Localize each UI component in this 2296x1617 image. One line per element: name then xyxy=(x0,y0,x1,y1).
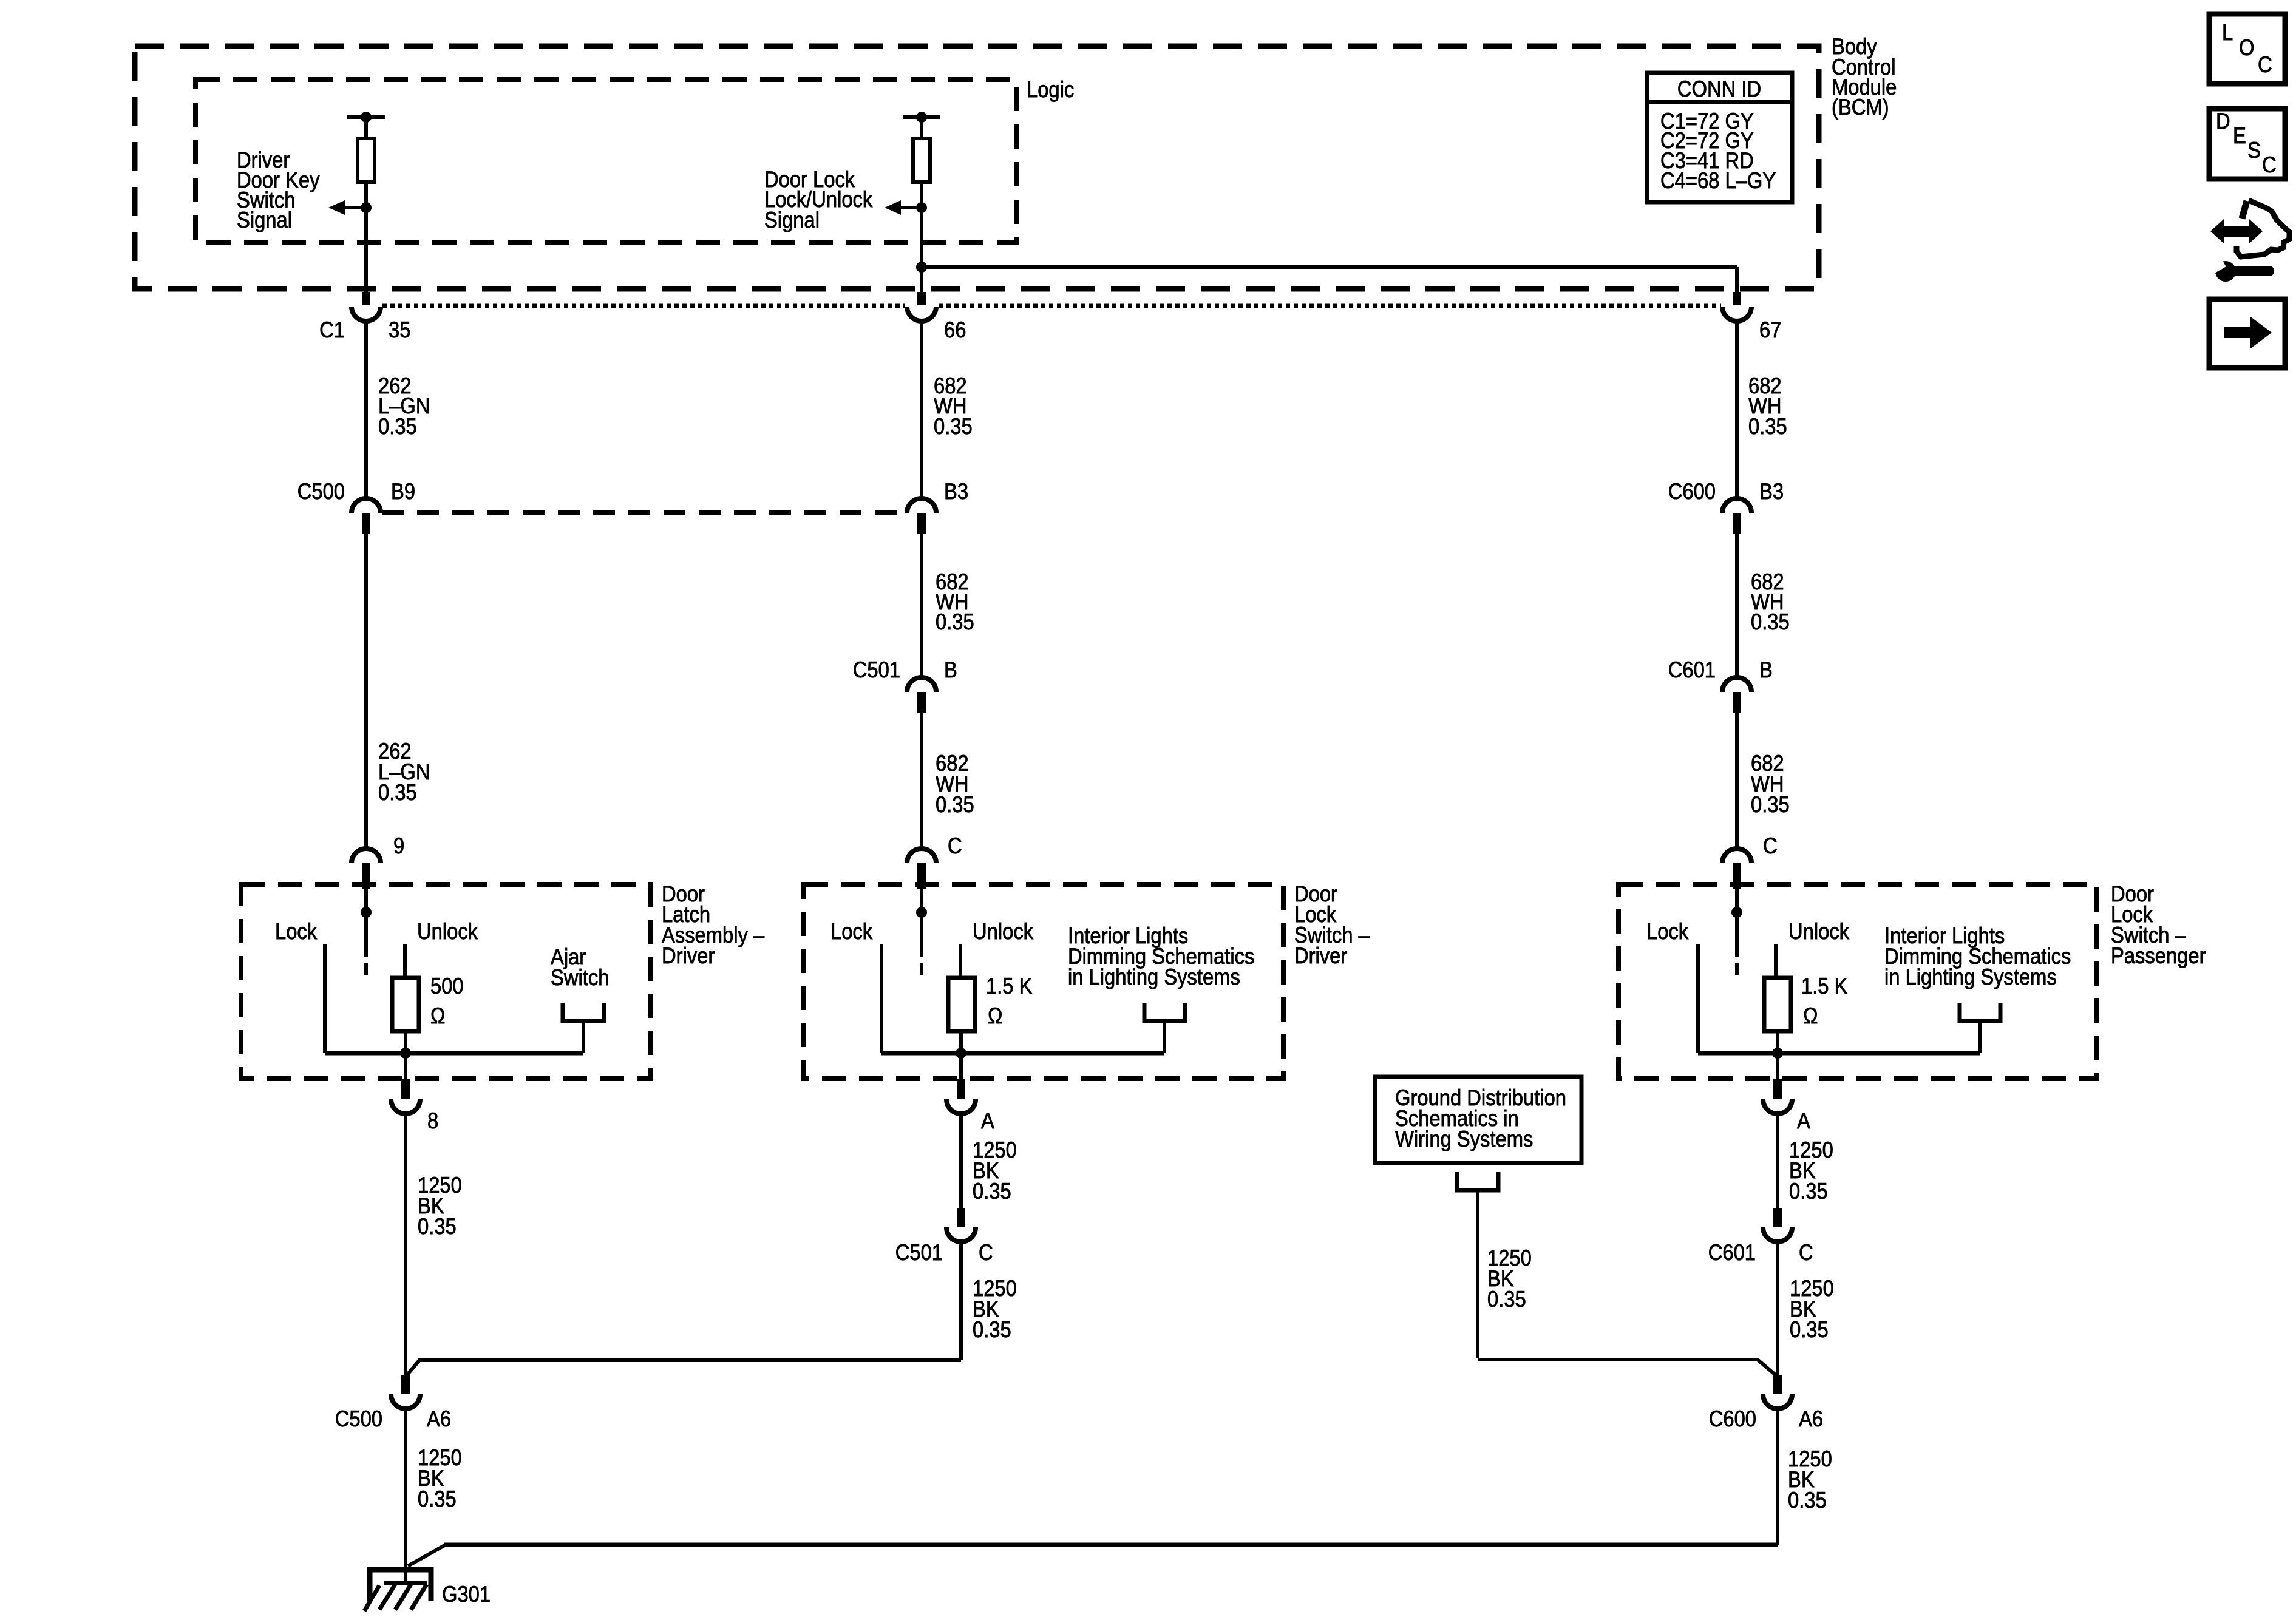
svg-text:0.35: 0.35 xyxy=(973,1317,1011,1342)
wire 1250 BK from C600-A6 down to ground run xyxy=(1776,1409,1779,1545)
svg-text:Driver: Driver xyxy=(662,943,715,968)
svg-text:(BCM): (BCM) xyxy=(1832,95,1889,120)
svg-text:0.35: 0.35 xyxy=(1790,1317,1829,1342)
diagnostic hand-wrench icon: wrench handle xyxy=(2232,266,2274,276)
switch movable arm (passenger) xyxy=(1735,912,1739,957)
svg-text:500: 500 xyxy=(430,974,464,998)
wire bus to pin A (driver) xyxy=(959,1053,963,1079)
svg-text:C: C xyxy=(979,1240,993,1265)
Unlock contact wire (driver) xyxy=(959,944,962,978)
door lock switch passenger pin C connector xyxy=(1722,849,1751,863)
wire diagonal jog into right column xyxy=(1758,1360,1778,1377)
svg-text:Ω: Ω xyxy=(1803,1003,1818,1028)
latch switch movable arm xyxy=(364,912,368,957)
LOC icon box xyxy=(2209,14,2285,84)
svg-text:0.35: 0.35 xyxy=(936,792,974,817)
BCM connector face dotted line xyxy=(382,304,905,308)
Ground Distribution Schematics reference box xyxy=(1375,1077,1581,1163)
connector C501 pin C (in-line) xyxy=(957,1208,965,1227)
diagnostic hand-wrench icon: outline shape xyxy=(2237,200,2289,257)
junction arrow/wire xyxy=(361,202,372,213)
wire bar to resistor xyxy=(920,117,923,138)
svg-text:E: E xyxy=(2233,123,2246,148)
resistor 500 ohm in door latch xyxy=(392,978,419,1031)
BCM pin 35 connector C1 (male pin + female cup) xyxy=(362,292,370,305)
svg-text:Signal: Signal xyxy=(764,208,820,232)
ground G301 hatch bar xyxy=(384,1581,427,1585)
wire diagonal jog into left column xyxy=(406,1360,419,1377)
junction switch common (passenger) xyxy=(1731,907,1742,918)
connector C501 pin B (in-line) xyxy=(907,677,936,692)
svg-text:8: 8 xyxy=(427,1108,438,1133)
wire pin C into switch common (passenger) xyxy=(1735,889,1739,912)
svg-text:0.35: 0.35 xyxy=(1748,414,1787,439)
ajar switch stem wire xyxy=(582,1021,585,1053)
connector C601 pin C (in-line) xyxy=(1773,1208,1782,1227)
wire 682 WH from 67 to C600-B3 xyxy=(1735,321,1739,498)
wire 1250 BK from driver pin A to C501-C xyxy=(959,1114,963,1208)
svg-text:0.35: 0.35 xyxy=(1788,1488,1827,1513)
latch switch arm tick xyxy=(364,963,368,975)
svg-text:A: A xyxy=(1797,1108,1810,1133)
svg-text:C1: C1 xyxy=(319,317,345,342)
Unlock contact wire (passenger) xyxy=(1774,944,1778,978)
latch contact bus wire xyxy=(325,1051,583,1056)
svg-text:S: S xyxy=(2247,138,2261,163)
wire 1250 BK from C501-C down xyxy=(959,1242,963,1360)
resistor (BCM internal, lock/unlock sense) xyxy=(913,138,930,182)
interior lights dimming contact bracket (driver) xyxy=(1144,1003,1185,1021)
svg-text:C: C xyxy=(2258,52,2272,77)
svg-text:C4=68 L–GY: C4=68 L–GY xyxy=(1660,168,1776,193)
svg-text:Signal: Signal xyxy=(237,208,292,232)
svg-text:0.35: 0.35 xyxy=(378,414,417,439)
svg-text:0.35: 0.35 xyxy=(418,1214,457,1239)
svg-text:C600: C600 xyxy=(1709,1406,1756,1431)
wire 682 WH from C601-B to door lock switch passenger pin C xyxy=(1735,713,1739,849)
wire resistor down through logic box to BCM pin 66 xyxy=(920,182,923,292)
wire middle branch to left column xyxy=(418,1358,961,1362)
svg-text:B: B xyxy=(1759,657,1773,682)
svg-text:0.35: 0.35 xyxy=(934,414,973,439)
wire ground distribution to right column xyxy=(1478,1358,1759,1361)
ground hatch stroke 1 xyxy=(364,1585,379,1611)
svg-text:C501: C501 xyxy=(895,1240,943,1265)
door lock switch passenger pin A connector xyxy=(1773,1079,1782,1099)
ajar switch contact bracket xyxy=(563,1003,604,1021)
svg-text:C601: C601 xyxy=(1708,1240,1756,1265)
svg-text:Logic: Logic xyxy=(1027,77,1074,102)
Unlock contact wire xyxy=(403,944,407,978)
wire 1250 BK from C601-C down xyxy=(1776,1242,1779,1375)
diagnostic hand-wrench icon: wrench head xyxy=(2215,261,2236,282)
svg-text:in Lighting Systems: in Lighting Systems xyxy=(1884,964,2057,989)
switch arm tick (passenger) xyxy=(1735,963,1739,975)
BCM pin 67 (male pin + female cup) xyxy=(1733,292,1741,305)
next-page arrow icon box xyxy=(2209,299,2285,368)
connector C600 pin B3 (in-line) xyxy=(1722,498,1751,513)
wire 262 L-GN from C1-35 to C500-B9 xyxy=(364,321,368,498)
wire bottom ground run right to left xyxy=(444,1543,1778,1547)
wire ground distribution stem xyxy=(1476,1190,1479,1358)
connector C601 pin B (in-line) xyxy=(1722,677,1751,692)
dashed harness line C500-B9 to C501-B3 xyxy=(382,510,906,515)
Door Lock Switch Driver dashed box xyxy=(804,884,1283,1079)
wire resistor down through logic box to BCM pin 35 xyxy=(364,182,368,292)
junction on top bar xyxy=(361,112,372,123)
diagnostic hand-wrench icon: thumb stroke xyxy=(2242,201,2247,219)
svg-text:1.5 K: 1.5 K xyxy=(986,974,1032,998)
dimming stem wire (driver) xyxy=(1163,1021,1166,1053)
svg-text:C601: C601 xyxy=(1668,657,1716,682)
junction bus to pin A (driver) xyxy=(956,1048,966,1059)
wire pin C into switch common (driver) xyxy=(920,889,923,912)
svg-text:0.35: 0.35 xyxy=(418,1486,457,1511)
next-page arrow icon xyxy=(2224,327,2251,338)
dimming stem wire (passenger) xyxy=(1978,1021,1982,1053)
wire resistor to bus (passenger) xyxy=(1776,1031,1779,1053)
svg-text:Ω: Ω xyxy=(988,1003,1002,1028)
CONN ID header separator xyxy=(1647,100,1792,104)
svg-text:C: C xyxy=(2262,152,2277,177)
DESC icon box xyxy=(2209,109,2285,179)
wire bar to resistor xyxy=(364,117,368,138)
junction bus to pin 8 xyxy=(400,1048,411,1059)
svg-text:Unlock: Unlock xyxy=(973,919,1034,944)
signal arrow: Door Lock Lock/Unlock Signal xyxy=(885,200,901,215)
svg-text:66: 66 xyxy=(944,317,966,342)
wire resistor to bus (driver) xyxy=(959,1031,963,1053)
svg-text:Lock: Lock xyxy=(275,919,318,944)
ground distribution contact bracket xyxy=(1457,1172,1498,1190)
svg-text:B3: B3 xyxy=(1759,479,1784,504)
door lock lock/unlock sense top contact bar xyxy=(903,115,940,119)
wire internal BCM link 66 to 67 xyxy=(922,265,1737,269)
Lock contact wire xyxy=(323,944,327,1053)
wire 682 WH from C501-B to door lock switch driver pin C xyxy=(920,713,923,849)
svg-text:Driver: Driver xyxy=(1294,943,1348,968)
svg-text:O: O xyxy=(2239,35,2254,60)
logic function dashed box inside BCM xyxy=(195,80,1016,242)
svg-text:C: C xyxy=(1799,1240,1813,1265)
wire 1250 BK from C500-A6 to ground G301 xyxy=(404,1409,407,1583)
connector C500 pin B9 (in-line) xyxy=(352,498,381,513)
wire 682 WH from B3 to C501-B xyxy=(920,534,923,677)
svg-text:Lock: Lock xyxy=(1646,919,1689,944)
diagnostic hand-wrench icon: double arrow xyxy=(2210,219,2224,243)
svg-text:B3: B3 xyxy=(944,479,968,504)
svg-text:C: C xyxy=(1763,833,1778,858)
connector C600 pin A6 (in-line) xyxy=(1773,1375,1782,1394)
svg-text:L: L xyxy=(2222,20,2233,45)
svg-text:B: B xyxy=(944,657,957,682)
BCM module dashed boundary box xyxy=(135,46,1819,289)
svg-text:D: D xyxy=(2216,109,2230,134)
contact bus wire (driver) xyxy=(881,1051,1164,1056)
junction at middle wire xyxy=(916,262,927,273)
wire 1250 BK from pin 8 to C500-A6 xyxy=(404,1114,407,1375)
svg-text:A6: A6 xyxy=(427,1406,451,1431)
door latch pin 8 connector xyxy=(401,1079,410,1099)
svg-text:Wiring Systems: Wiring Systems xyxy=(1395,1127,1533,1151)
svg-text:1.5 K: 1.5 K xyxy=(1801,974,1847,998)
door lock switch driver pin C connector xyxy=(907,849,936,863)
wire diagonal jog into ground wire xyxy=(408,1545,446,1566)
resistor (BCM internal, driver key switch pull-up) xyxy=(358,138,375,182)
svg-text:0.35: 0.35 xyxy=(973,1179,1011,1204)
resistor 1.5 K in passenger door lock switch xyxy=(1764,978,1791,1031)
svg-text:Ω: Ω xyxy=(430,1003,445,1028)
resistor 1.5 K in driver door lock switch xyxy=(948,978,975,1031)
junction on top bar xyxy=(916,112,927,123)
wire bus to pin 8 xyxy=(404,1053,407,1079)
Lock contact wire (driver) xyxy=(880,944,883,1053)
door lock switch driver pin A connector xyxy=(957,1079,965,1099)
CONN ID table box xyxy=(1647,73,1792,202)
svg-text:9: 9 xyxy=(393,833,404,858)
door latch assembly pin 9 connector xyxy=(352,849,381,863)
svg-text:G301: G301 xyxy=(442,1582,491,1607)
svg-text:CONN ID: CONN ID xyxy=(1677,76,1761,101)
ground G301 frame xyxy=(370,1570,431,1601)
svg-text:C: C xyxy=(948,833,962,858)
svg-text:C500: C500 xyxy=(297,479,345,504)
svg-text:0.35: 0.35 xyxy=(1751,792,1790,817)
svg-text:C501: C501 xyxy=(853,657,900,682)
svg-text:B9: B9 xyxy=(391,479,415,504)
junction switch common (driver) xyxy=(916,907,927,918)
Door Lock Switch Passenger dashed box xyxy=(1618,884,2097,1079)
junction bus to pin A (passenger) xyxy=(1772,1048,1783,1059)
svg-text:Passenger: Passenger xyxy=(2111,943,2206,968)
BCM pin 66 (male pin + female cup) xyxy=(917,292,926,305)
svg-text:C600: C600 xyxy=(1668,479,1716,504)
wire 682 WH from C600-B3 to C601-B xyxy=(1735,534,1739,677)
ground hatch stroke 2 xyxy=(379,1584,395,1610)
svg-text:A: A xyxy=(981,1108,994,1133)
junction latch switch common xyxy=(361,907,372,918)
wire bus to pin A (passenger) xyxy=(1776,1053,1779,1079)
ground hatch stroke 4 xyxy=(411,1584,427,1610)
svg-text:0.35: 0.35 xyxy=(1487,1287,1526,1312)
wire resistor to bus xyxy=(404,1031,407,1053)
Door Latch Assembly Driver dashed box xyxy=(241,884,650,1079)
svg-text:Unlock: Unlock xyxy=(417,919,478,944)
svg-text:Lock: Lock xyxy=(830,919,873,944)
svg-text:Switch: Switch xyxy=(551,965,609,990)
junction arrow/wire xyxy=(916,202,927,213)
driver door key switch S1 top contact bar xyxy=(347,115,385,119)
ground hatch stroke 3 xyxy=(395,1584,411,1610)
connector C500 pin A6 (in-line) xyxy=(401,1375,410,1394)
wire corner down to pin 67 xyxy=(1735,267,1739,292)
wire 1250 BK from passenger pin A to C601-C xyxy=(1776,1114,1779,1208)
interior lights dimming contact bracket (passenger) xyxy=(1960,1003,2000,1021)
svg-text:0.35: 0.35 xyxy=(378,780,417,805)
svg-text:in Lighting Systems: in Lighting Systems xyxy=(1068,964,1240,989)
connector pin B3 (in-line, C501 harness side) xyxy=(907,498,936,513)
wire 262 L-GN from C500-B9 to door latch pin 9 xyxy=(364,534,368,849)
svg-text:35: 35 xyxy=(389,317,410,342)
svg-text:A6: A6 xyxy=(1799,1406,1823,1431)
svg-text:0.35: 0.35 xyxy=(1751,609,1790,634)
wire pin 9 into latch switch common xyxy=(364,889,368,912)
svg-text:67: 67 xyxy=(1759,317,1781,342)
signal arrow: Driver Door Key Switch Signal xyxy=(328,200,345,215)
contact bus wire (passenger) xyxy=(1698,1051,1980,1056)
svg-text:Unlock: Unlock xyxy=(1788,919,1850,944)
switch arm tick (driver) xyxy=(920,963,923,975)
wire 682 WH from 66 to B3 xyxy=(920,321,923,498)
svg-text:C500: C500 xyxy=(335,1406,382,1431)
switch movable arm (driver) xyxy=(920,912,923,957)
Lock contact wire (passenger) xyxy=(1696,944,1700,1053)
svg-text:0.35: 0.35 xyxy=(936,609,974,634)
svg-text:0.35: 0.35 xyxy=(1789,1179,1828,1204)
